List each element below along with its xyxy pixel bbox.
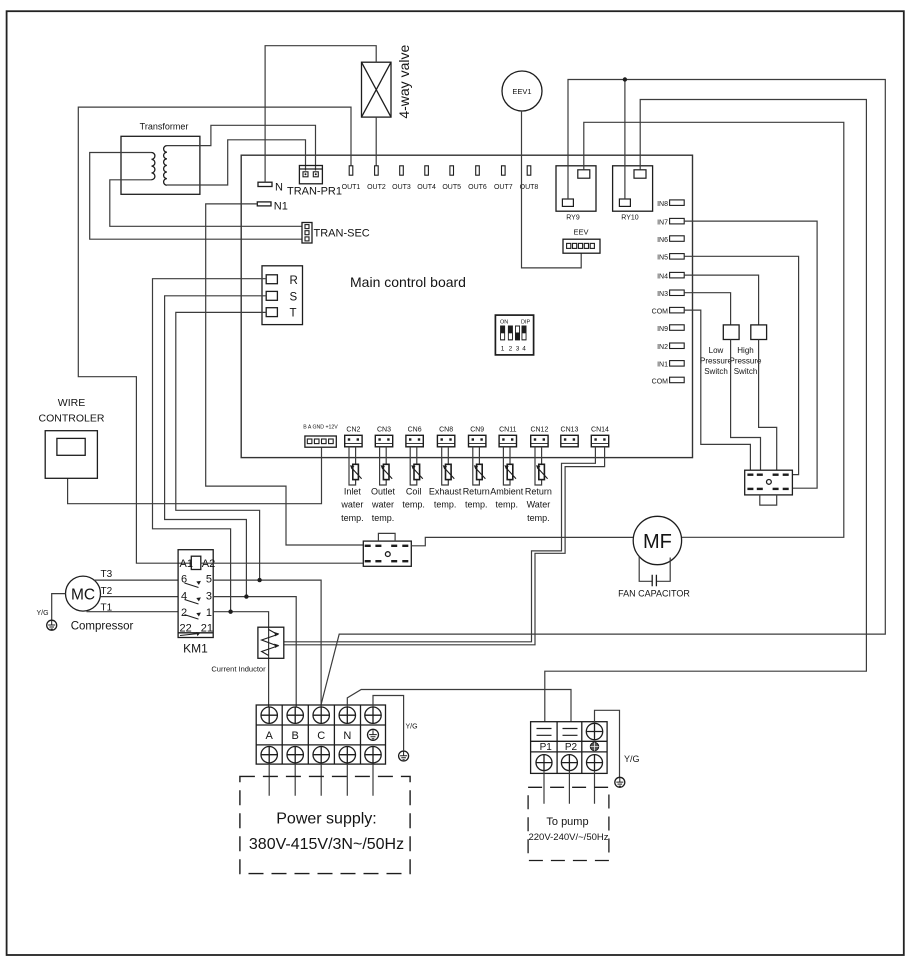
svg-text:A1: A1: [180, 558, 193, 570]
wire KM1 pin 1 through current inductor to terminal A: [213, 612, 268, 707]
connector EEV: [563, 228, 600, 254]
connector OUT4: [417, 166, 436, 191]
contact 6-5: [185, 583, 199, 588]
svg-text:temp.: temp.: [465, 500, 488, 510]
svg-text:OUT2: OUT2: [367, 184, 386, 191]
svg-text:1: 1: [206, 607, 212, 619]
svg-text:N: N: [343, 730, 351, 742]
svg-text:A: A: [266, 730, 274, 742]
svg-text:Return: Return: [463, 487, 490, 497]
fuse N: [258, 182, 283, 194]
svg-text:IN2: IN2: [657, 344, 668, 351]
connector OUT5: [442, 166, 461, 191]
ground Y/G at power terminal: [399, 724, 418, 762]
wire KM1 pin 5 to terminal C: [213, 580, 321, 707]
svg-text:EEV1: EEV1: [512, 87, 531, 96]
terminal block X4 pump P1 P2 PE: [531, 722, 608, 774]
label sensor text Ambient: [490, 487, 524, 510]
svg-text:R: R: [290, 275, 298, 287]
transformer T1: [121, 122, 200, 195]
svg-text:Transformer: Transformer: [140, 122, 189, 132]
contactor KM1: [178, 550, 215, 656]
thermistor sensor at CN12: [535, 447, 548, 485]
svg-text:P1: P1: [540, 742, 553, 753]
svg-text:B: B: [292, 730, 299, 742]
svg-text:TRAN-SEC: TRAN-SEC: [314, 228, 370, 240]
svg-text:Return: Return: [525, 487, 552, 497]
wire transformer secondary top to TRAN-SEC pin 3: [90, 153, 302, 240]
svg-text:temp.: temp.: [527, 513, 550, 523]
svg-text:Ambient: Ambient: [490, 487, 524, 497]
wire MC T1 to KM1 pin 2: [87, 611, 179, 613]
thermistor sensor at CN2: [349, 447, 362, 485]
label sensor text Coil: [402, 487, 425, 510]
wire pump stubs into pump box: [544, 771, 595, 804]
connector CN6: [406, 427, 423, 447]
svg-text:IN3: IN3: [657, 291, 668, 298]
svg-text:WIRE: WIRE: [58, 397, 85, 409]
connector COM: [652, 307, 685, 315]
svg-text:OUT4: OUT4: [417, 184, 436, 191]
label sensor text Outlet: [371, 487, 396, 523]
svg-text:Pressure: Pressure: [729, 357, 762, 366]
wire socket X1 top bridge: [378, 533, 395, 541]
connector OUT6: [468, 166, 487, 191]
svg-text:Low: Low: [709, 346, 724, 355]
svg-text:RY9: RY9: [566, 215, 580, 222]
relay socket X1 fan: [363, 541, 411, 566]
svg-text:Power supply:: Power supply:: [276, 811, 377, 828]
svg-text:IN1: IN1: [657, 362, 668, 369]
main control board U100: [241, 155, 692, 457]
thermistor sensor at CN11: [503, 447, 516, 485]
junction dot RY10 bus: [623, 77, 627, 81]
wire RY10 coil to pump terminal P1: [545, 100, 867, 722]
svg-text:380V-415V/3N~/50Hz: 380V-415V/3N~/50Hz: [249, 836, 404, 853]
svg-text:B A GND +12V: B A GND +12V: [303, 425, 338, 431]
connector CN11: [499, 427, 516, 447]
wire power stubs into supply box: [269, 764, 373, 796]
svg-text:Current Inductor: Current Inductor: [211, 665, 266, 674]
wire CN14 pair to current inductor (lead 1): [284, 447, 596, 642]
connector CN12: [530, 427, 548, 447]
svg-text:temp.: temp.: [434, 500, 457, 510]
wire controller cable to CN1: [68, 447, 322, 504]
svg-text:CN14: CN14: [591, 427, 609, 434]
svg-text:N: N: [275, 182, 283, 194]
svg-text:High: High: [737, 346, 753, 355]
svg-text:Outlet: Outlet: [371, 487, 396, 497]
motor MF fan: [633, 516, 681, 564]
svg-text:IN6: IN6: [657, 237, 668, 244]
svg-text:5: 5: [206, 574, 212, 586]
wire high pressure switch to socket X2: [759, 340, 777, 471]
svg-text:temp.: temp.: [372, 513, 395, 523]
wire S to contactor pin 3: [165, 296, 267, 597]
svg-text:MF: MF: [643, 531, 672, 553]
svg-text:CN12: CN12: [530, 427, 548, 434]
svg-text:EEV: EEV: [573, 228, 588, 237]
contact 2-1: [185, 615, 199, 620]
connector CN14: [591, 427, 609, 447]
svg-text:KM1: KM1: [183, 642, 208, 656]
svg-text:Switch: Switch: [704, 367, 728, 376]
wire KM1 pin 3 to terminal B: [213, 597, 296, 707]
ground symbol X3 label cell: [368, 729, 379, 740]
wire transformer primary bottom to TRAN-PR1 pin 1: [167, 140, 306, 185]
screw terminals X3 bottom row: [261, 747, 381, 763]
svg-text:OUT3: OUT3: [392, 184, 411, 191]
wire IN3 to low pressure switch: [684, 293, 730, 325]
wire N1 to fan relay socket top-left: [206, 204, 364, 545]
wire socket X2 bottom link: [760, 495, 777, 505]
thermistor sensor at CN6: [410, 447, 423, 485]
svg-text:CN2: CN2: [346, 427, 360, 434]
wire RY9 contact to C-phase bus: [321, 80, 885, 705]
svg-text:4: 4: [522, 346, 526, 353]
svg-text:A2: A2: [202, 558, 215, 570]
svg-text:temp.: temp.: [496, 500, 519, 510]
DIP switch SW1: [495, 315, 533, 355]
connector IN1: [657, 361, 684, 369]
svg-text:CN13: CN13: [561, 427, 579, 434]
ground Y/G at pump terminal: [615, 754, 640, 787]
svg-text:T3: T3: [101, 569, 113, 580]
svg-text:IN8: IN8: [657, 201, 668, 208]
svg-text:OUT5: OUT5: [442, 184, 461, 191]
svg-text:IN5: IN5: [657, 255, 668, 262]
svg-text:2: 2: [509, 346, 513, 353]
wire MC T3 to KM1 pin 6: [94, 579, 178, 581]
svg-text:IN9: IN9: [657, 326, 668, 333]
svg-text:Y/G: Y/G: [624, 754, 640, 764]
svg-text:Inlet: Inlet: [344, 487, 362, 497]
svg-text:To pump: To pump: [546, 816, 588, 828]
svg-text:220V-240V/~/50Hz: 220V-240V/~/50Hz: [528, 832, 608, 843]
svg-text:OUT1: OUT1: [342, 184, 361, 191]
connector IN2: [657, 343, 684, 351]
svg-text:ON: ON: [500, 320, 508, 326]
switch SP1 low pressure: [700, 325, 739, 376]
relay RY10: [613, 166, 653, 222]
4-way valve V1: [362, 45, 413, 119]
svg-text:T: T: [290, 308, 297, 320]
connector IN3: [657, 290, 684, 298]
connector OUT3: [392, 166, 411, 191]
svg-text:Main control board: Main control board: [350, 274, 466, 290]
svg-text:4-way valve: 4-way valve: [396, 45, 412, 119]
wire CN14 pair to current inductor (lead 2): [284, 447, 605, 645]
svg-text:Compressor: Compressor: [71, 621, 134, 633]
svg-text:S: S: [290, 291, 298, 303]
wire terminal PE to ground Y/G: [373, 696, 404, 751]
pump supply dashed box: [528, 787, 609, 860]
connector COM2: [652, 377, 685, 385]
wire OUT1 to contactor coil A1: [78, 107, 351, 563]
svg-text:3: 3: [206, 591, 212, 603]
svg-text:Water: Water: [527, 500, 551, 510]
wire IN4 to high pressure switch: [684, 275, 758, 325]
connector OUT8: [520, 166, 539, 191]
wire socket X1 to fan motor MF: [411, 537, 633, 545]
svg-text:temp.: temp.: [341, 513, 364, 523]
connector IN5: [657, 254, 684, 262]
wire 4-way valve top to fuse N: [265, 46, 376, 183]
wire terminal N to pump P2: [347, 690, 571, 722]
wire low pressure switch to socket X2: [731, 340, 761, 471]
connector IN6: [657, 236, 684, 244]
svg-text:OUT8: OUT8: [520, 184, 539, 191]
svg-text:N1: N1: [274, 201, 288, 213]
label sensor text Exhaust: [429, 487, 462, 510]
connector CN1 B A GND +12V: [303, 425, 338, 448]
connector CN2: [345, 427, 362, 447]
svg-text:CONTROLER: CONTROLER: [39, 413, 105, 425]
svg-text:T2: T2: [101, 586, 113, 597]
switch SP2 high pressure: [729, 325, 766, 376]
svg-text:Coil: Coil: [406, 487, 422, 497]
wire pump PE to ground Y/G: [595, 710, 620, 777]
svg-text:Y/G: Y/G: [37, 610, 49, 617]
contact 4-3: [185, 600, 199, 605]
svg-text:1: 1: [501, 346, 505, 353]
thermistor sensor at CN9: [473, 447, 486, 485]
fuse N1: [257, 201, 288, 213]
connector IN4: [657, 272, 684, 280]
connector CN8: [437, 427, 454, 447]
connector OUT2: [367, 166, 386, 191]
wire EEV1 to EEV connector: [522, 111, 582, 268]
junction dot S-B: [244, 594, 248, 598]
svg-text:21: 21: [201, 623, 213, 635]
connector IN8: [657, 200, 684, 208]
svg-text:DIP: DIP: [521, 320, 531, 326]
svg-text:Pressure: Pressure: [700, 357, 733, 366]
svg-text:4: 4: [181, 591, 187, 603]
connector IN9: [657, 325, 684, 333]
label sensor text Return: [463, 487, 490, 510]
svg-text:3: 3: [516, 346, 520, 353]
svg-text:RY10: RY10: [621, 215, 638, 222]
connector CN13: [561, 427, 579, 447]
label sensor text Return: [525, 487, 552, 523]
connector TRAN-PR1: [287, 166, 342, 198]
wire R to contactor pin 1: [153, 279, 267, 612]
capacitor C1 fan capacitor: [618, 557, 690, 599]
svg-text:22: 22: [180, 623, 192, 635]
label sensor text Inlet: [340, 487, 363, 523]
ground Y/G at compressor: [37, 594, 66, 631]
svg-text:water: water: [371, 500, 394, 510]
wire transformer secondary bottom to TRAN-SEC pin 1: [110, 180, 302, 227]
svg-text:COM: COM: [652, 378, 669, 385]
connector TRAN-SEC: [302, 223, 370, 244]
wire RY9 coil to fan motor MF: [584, 122, 844, 537]
svg-text:C: C: [317, 730, 325, 742]
svg-text:2: 2: [181, 607, 187, 619]
svg-text:IN4: IN4: [657, 274, 668, 281]
connector CN3: [375, 427, 392, 447]
svg-text:IN7: IN7: [657, 220, 668, 227]
relay socket X2: [745, 470, 793, 495]
svg-text:P2: P2: [565, 742, 578, 753]
connector IN7: [657, 218, 684, 226]
wire RY10 contact joining bus: [624, 80, 626, 200]
contact 22-21: [180, 634, 197, 636]
wire IN7 to relay socket X2: [684, 221, 817, 488]
svg-text:temp.: temp.: [402, 500, 425, 510]
junction dot R-A: [228, 610, 232, 614]
wire 4-way valve bottom to OUT2: [375, 117, 377, 166]
valve EEV1: [502, 71, 542, 111]
svg-text:FAN CAPACITOR: FAN CAPACITOR: [618, 589, 690, 599]
svg-text:TRAN-PR1: TRAN-PR1: [287, 186, 342, 198]
svg-text:CN3: CN3: [377, 427, 391, 434]
junction dot T-C: [257, 578, 261, 582]
svg-text:water: water: [340, 500, 363, 510]
thermistor sensor at CN8: [442, 447, 455, 485]
wire IN5 to relay socket X2: [684, 256, 798, 474]
thermistor sensor at CN3: [380, 447, 393, 485]
connector CN9: [469, 427, 486, 447]
wire COM to relay socket X2: [684, 310, 750, 470]
terminal block R S T: [262, 266, 303, 325]
svg-text:COM: COM: [652, 309, 669, 316]
terminal block X3 power A B C N PE: [256, 705, 385, 764]
current inductor L1: [211, 627, 283, 673]
wire controller box: [39, 397, 105, 478]
power supply dashed box: [240, 776, 410, 873]
motor MC compressor: [66, 576, 134, 632]
wire transformer primary top to TRAN-PR1 pin 2: [167, 125, 316, 170]
wire KM1 coil A2 to fan relay socket: [201, 562, 363, 564]
relay RY9: [556, 166, 596, 222]
svg-text:CN9: CN9: [470, 427, 484, 434]
connector OUT7: [494, 166, 513, 191]
svg-text:MC: MC: [71, 587, 95, 604]
svg-text:Switch: Switch: [734, 367, 758, 376]
svg-text:Exhaust: Exhaust: [429, 487, 462, 497]
svg-text:OUT7: OUT7: [494, 184, 513, 191]
connector OUT1: [342, 166, 361, 191]
wire T to contactor pin 5: [176, 312, 266, 580]
svg-text:CN6: CN6: [408, 427, 422, 434]
wire MC T2 to KM1 pin 4: [100, 596, 178, 598]
svg-text:OUT6: OUT6: [468, 184, 487, 191]
svg-text:CN8: CN8: [439, 427, 453, 434]
svg-text:CN11: CN11: [499, 427, 516, 434]
svg-text:Y/G: Y/G: [406, 724, 418, 731]
screw terminals X3 top row: [261, 707, 381, 723]
